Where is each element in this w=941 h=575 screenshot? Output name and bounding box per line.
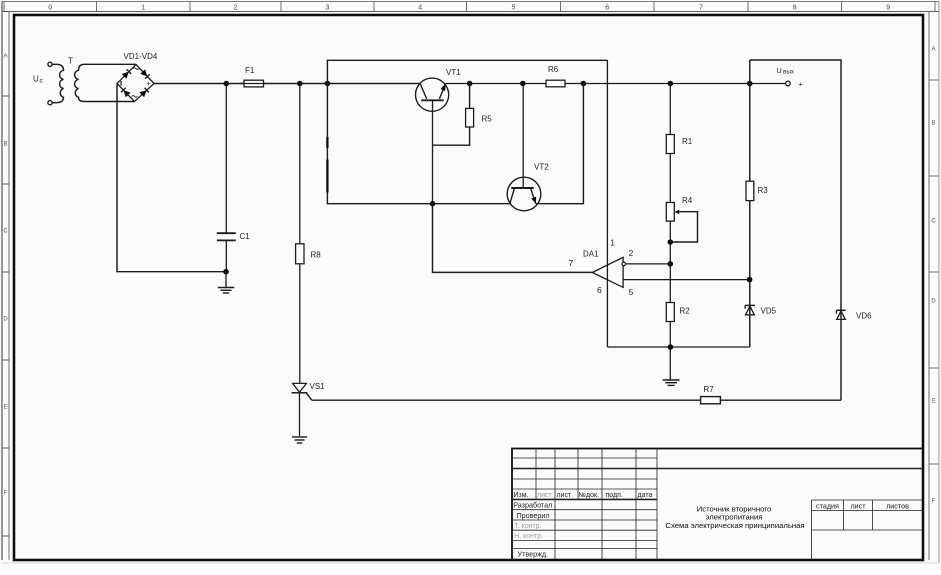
svg-text:2: 2: [234, 4, 238, 11]
junction R4 wiper: [668, 239, 674, 245]
ground under C1: [218, 272, 234, 293]
transformer T: [52, 57, 136, 103]
svg-text:1: 1: [141, 4, 145, 11]
wire collector box loop: [327, 60, 607, 203]
transistor VT2: [507, 84, 549, 211]
wire VT2 emitter riser: [536, 84, 584, 204]
svg-text:лист: лист: [557, 492, 572, 499]
svg-text:2: 2: [629, 248, 634, 258]
ground under R2: [663, 380, 680, 385]
svg-text:0: 0: [48, 4, 52, 11]
junction R2 bottom: [668, 344, 674, 350]
DA1 pin 6 label: [597, 285, 602, 295]
svg-text:+: +: [147, 81, 151, 88]
svg-text:A: A: [3, 54, 7, 60]
svg-text:1: 1: [610, 238, 615, 248]
resistor R8: [296, 84, 322, 384]
svg-text:D: D: [3, 317, 8, 323]
svg-text:R8: R8: [311, 251, 322, 260]
svg-text:7: 7: [699, 4, 703, 11]
svg-text:лист: лист: [537, 492, 552, 499]
junction output branch: [747, 81, 753, 87]
svg-text:VD5: VD5: [761, 307, 777, 316]
svg-text:B: B: [931, 121, 935, 127]
svg-text:Схема электрическая принципиал: Схема электрическая принципиальная: [665, 521, 804, 530]
svg-text:R4: R4: [682, 196, 693, 205]
svg-text:4: 4: [418, 4, 422, 11]
wire gate rail to VD6: [312, 399, 841, 401]
svg-text:VT2: VT2: [534, 163, 549, 172]
wire DA1 pin2: [626, 263, 670, 265]
resistor R1: [666, 135, 692, 154]
thyristor VS1: [292, 382, 326, 436]
diode VD6: [836, 310, 872, 320]
svg-text:подп.: подп.: [606, 492, 623, 499]
svg-text:7: 7: [569, 258, 574, 268]
svg-text:№док.: №док.: [579, 492, 600, 499]
svg-text:E: E: [931, 399, 935, 405]
svg-text:R5: R5: [482, 115, 493, 124]
svg-text:E: E: [3, 405, 7, 411]
resistor R6: [546, 65, 565, 87]
DA1 pin 2 label: [629, 248, 634, 258]
svg-text:Н. контр.: Н. контр.: [514, 533, 543, 540]
svg-text:Изм.: Изм.: [514, 492, 529, 499]
wire bridge minus to ground rail: [117, 84, 226, 272]
svg-text:C: C: [3, 229, 8, 235]
svg-text:9: 9: [886, 4, 890, 11]
svg-text:R1: R1: [682, 137, 693, 146]
wire main bus bridge to VT1: [154, 83, 420, 85]
svg-text:стадия: стадия: [816, 501, 839, 510]
svg-text:Т. контр.: Т. контр.: [514, 523, 541, 530]
potentiometer R4: [666, 196, 697, 242]
svg-text:R2: R2: [680, 307, 691, 316]
junction VT2 emitter riser: [581, 81, 587, 87]
junction C1 bottom / ground rail: [223, 269, 229, 275]
svg-text:Разработал: Разработал: [513, 501, 552, 510]
junction R5 top: [467, 81, 473, 87]
svg-text:VD6: VD6: [856, 311, 872, 320]
junction VT2 base: [520, 81, 526, 87]
svg-text:U: U: [33, 75, 39, 84]
transistor VT1: [416, 68, 462, 111]
resistor R5: [433, 84, 493, 146]
svg-text:F: F: [932, 499, 936, 505]
wire output top loop: [750, 60, 841, 400]
svg-text:T: T: [68, 57, 73, 66]
svg-text:5: 5: [629, 287, 634, 297]
svg-text:8: 8: [793, 4, 797, 11]
wire VT1 base: [432, 100, 434, 203]
svg-text:дата: дата: [638, 492, 653, 499]
fuse F1: [240, 66, 267, 87]
bridge rectifier VD1-VD4: [117, 52, 158, 102]
svg-text:DA1: DA1: [583, 250, 599, 259]
svg-text:листов: листов: [886, 501, 909, 510]
svg-text:+: +: [799, 79, 804, 88]
junction VT1 base node: [430, 201, 436, 207]
svg-text:F1: F1: [245, 66, 255, 75]
svg-text:R7: R7: [704, 385, 715, 394]
junction C1 top: [224, 81, 230, 87]
wire DA1 pin5: [623, 279, 750, 281]
svg-text:U: U: [777, 66, 782, 75]
resistor R7: [701, 385, 721, 404]
wire DA1 output: [433, 204, 593, 273]
svg-text:Проверил: Проверил: [517, 511, 550, 520]
node Uvyh output terminal: [777, 66, 804, 88]
DA1 pin 5 label: [629, 287, 634, 297]
svg-text:D: D: [931, 299, 936, 305]
wire bottom rail: [607, 346, 749, 348]
capacitor C1: [217, 84, 250, 272]
svg-text:VD1-VD4: VD1-VD4: [124, 52, 158, 61]
svg-text:3: 3: [326, 4, 330, 11]
wire main bus VT1 to output: [446, 83, 786, 85]
junction pin2 node: [668, 261, 674, 267]
svg-text:вых: вых: [783, 69, 795, 76]
svg-text:C1: C1: [240, 232, 251, 241]
svg-text:Утвержд.: Утвержд.: [518, 550, 549, 559]
op-amp DA1: [583, 250, 626, 288]
wire collector box left edge: [326, 137, 328, 193]
DA1 pin 1 label: [610, 238, 615, 248]
DA1 pin 7 label: [569, 258, 574, 268]
resistor R2: [666, 303, 690, 322]
svg-text:VT1: VT1: [446, 68, 461, 77]
junction R1 top: [668, 81, 674, 87]
svg-text:лист: лист: [850, 501, 866, 510]
wire DA1 pin1-pin6 line: [606, 60, 608, 347]
resistor R3: [746, 181, 768, 200]
junction pin5 node: [747, 277, 753, 283]
title block (decorative): [512, 449, 923, 561]
svg-text:VS1: VS1: [310, 382, 326, 391]
svg-text:6: 6: [605, 4, 609, 11]
ground under VS1: [292, 437, 307, 443]
wire divider chain: [669, 84, 671, 380]
svg-text:F: F: [4, 491, 8, 497]
zener diode VD5: [745, 305, 777, 315]
junction R8 top: [297, 81, 303, 87]
svg-text:B: B: [3, 142, 7, 148]
junction collector box left: [325, 81, 331, 87]
svg-text:5: 5: [512, 4, 516, 11]
svg-text:C: C: [931, 219, 936, 225]
svg-text:A: A: [931, 47, 935, 53]
svg-text:6: 6: [597, 285, 602, 295]
svg-text:R3: R3: [758, 186, 769, 195]
wire R3 branch: [749, 60, 751, 347]
node Uc input terminals: [33, 62, 52, 105]
svg-text:R6: R6: [548, 65, 559, 74]
